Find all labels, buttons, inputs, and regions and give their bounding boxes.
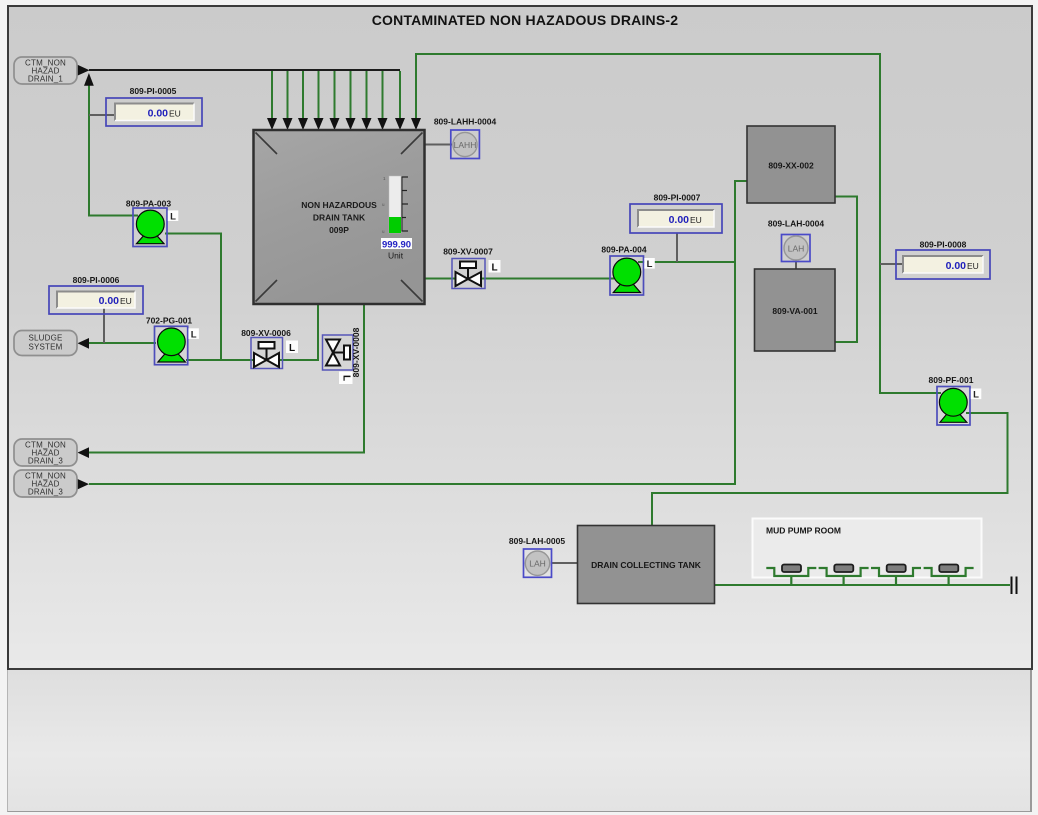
svg-text:L: L <box>289 343 295 354</box>
svg-text:809-LAH-0004: 809-LAH-0004 <box>768 219 824 229</box>
svg-text:DRAIN TANK: DRAIN TANK <box>313 213 366 223</box>
svg-text:NON HAZARDOUS: NON HAZARDOUS <box>301 200 377 210</box>
svg-text:SLUDGE: SLUDGE <box>28 334 62 343</box>
svg-text:DRAIN_3: DRAIN_3 <box>28 457 64 466</box>
svg-text:0.00: 0.00 <box>669 214 690 226</box>
svg-text:SYSTEM: SYSTEM <box>28 343 62 352</box>
svg-text:702-PG-001: 702-PG-001 <box>146 316 193 326</box>
svg-text:CONTAMINATED NON HAZADOUS DRAI: CONTAMINATED NON HAZADOUS DRAINS-2 <box>372 12 679 28</box>
svg-text:Unit: Unit <box>388 251 404 261</box>
svg-text:LAH: LAH <box>529 559 546 569</box>
svg-text:009P: 009P <box>329 225 349 235</box>
svg-text:999.90: 999.90 <box>382 240 411 251</box>
svg-text:809-PA-004: 809-PA-004 <box>601 245 646 255</box>
svg-text:LAH: LAH <box>788 243 805 253</box>
svg-text:809-PI-0008: 809-PI-0008 <box>920 240 967 250</box>
svg-text:L: L <box>170 211 176 222</box>
svg-text:809-PA-003: 809-PA-003 <box>126 199 171 209</box>
svg-text:809-XV-0008: 809-XV-0008 <box>351 327 361 377</box>
svg-text:0.00: 0.00 <box>99 295 120 307</box>
svg-text:0.00: 0.00 <box>946 260 967 272</box>
svg-text:EU: EU <box>169 109 181 119</box>
svg-text:EU: EU <box>967 261 979 271</box>
svg-text:809-LAHH-0004: 809-LAHH-0004 <box>434 117 497 127</box>
svg-text:809-XX-002: 809-XX-002 <box>768 161 814 171</box>
svg-text:809-LAH-0005: 809-LAH-0005 <box>509 536 565 546</box>
svg-text:L: L <box>973 390 979 401</box>
svg-text:809-PI-0005: 809-PI-0005 <box>130 86 177 96</box>
svg-text:0.00: 0.00 <box>148 108 169 120</box>
svg-text:809-PF-001: 809-PF-001 <box>929 375 974 385</box>
svg-text:L: L <box>341 375 352 381</box>
svg-text:809-XV-0006: 809-XV-0006 <box>241 328 291 338</box>
svg-text:809-PI-0006: 809-PI-0006 <box>73 275 120 285</box>
svg-text:L: L <box>491 263 497 274</box>
svg-text:809-PI-0007: 809-PI-0007 <box>654 193 701 203</box>
svg-text:DRAIN_3: DRAIN_3 <box>28 488 64 497</box>
svg-text:DRAIN_1: DRAIN_1 <box>28 75 64 84</box>
svg-text:MUD PUMP ROOM: MUD PUMP ROOM <box>766 526 841 536</box>
svg-text:809-VA-001: 809-VA-001 <box>772 306 817 316</box>
svg-text:LAHH: LAHH <box>454 140 477 150</box>
svg-text:L: L <box>191 329 197 340</box>
svg-text:EU: EU <box>120 296 132 306</box>
svg-text:L: L <box>647 259 653 270</box>
svg-text:DRAIN COLLECTING TANK: DRAIN COLLECTING TANK <box>591 560 702 570</box>
svg-text:809-XV-0007: 809-XV-0007 <box>443 247 493 257</box>
svg-text:EU: EU <box>690 215 702 225</box>
